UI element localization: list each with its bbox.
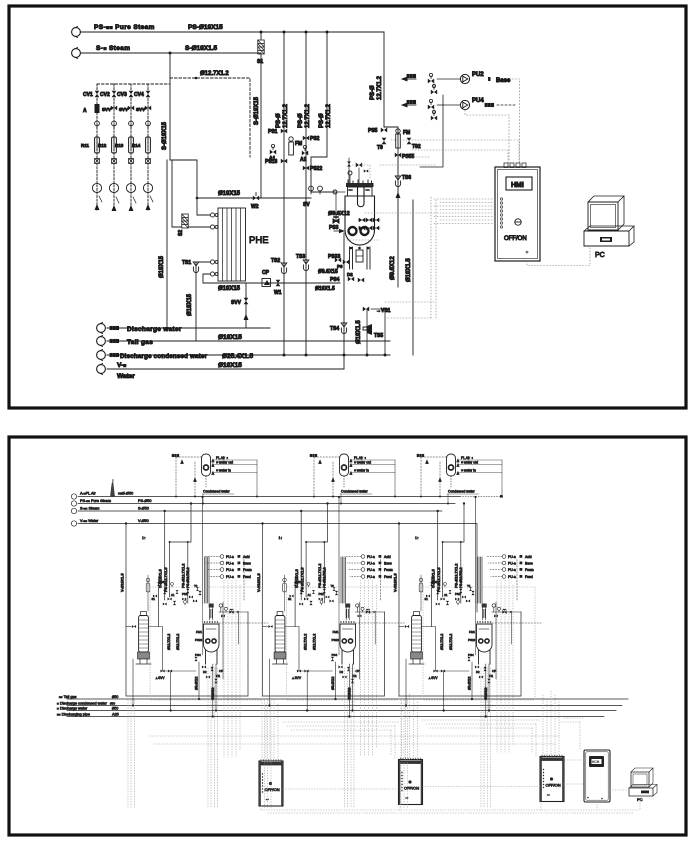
svg-text:Acid: Acid xyxy=(243,555,250,559)
svg-text:S-Ø19X15: S-Ø19X15 xyxy=(162,121,168,150)
controller top bar xyxy=(260,762,282,765)
svg-text:FM: FM xyxy=(295,141,302,147)
PHE nozzle 4 xyxy=(210,272,218,276)
wire condensed header xyxy=(67,705,622,707)
label condensed water xyxy=(202,490,234,495)
valve W2 xyxy=(251,193,259,210)
svg-text:SVV: SVV xyxy=(136,107,145,112)
condenser capsule xyxy=(202,454,211,476)
wire discharge water header xyxy=(67,710,616,712)
steam trap TS1 xyxy=(182,260,199,273)
signal column controller1 xyxy=(262,696,278,761)
svg-text:TS3: TS3 xyxy=(296,254,305,260)
svg-text:PS4: PS4 xyxy=(330,277,340,283)
mid vertical wire xyxy=(158,577,160,627)
PU acid row xyxy=(220,555,250,559)
water riser wire xyxy=(126,524,248,697)
signal bus risers xyxy=(261,795,640,810)
signal frame between c1 c2 xyxy=(283,722,399,730)
cooling water arrow into vessel xyxy=(334,229,345,233)
PU base row xyxy=(220,561,251,565)
svg-text:P0: P0 xyxy=(337,264,343,269)
svg-text:▲SVV: ▲SVV xyxy=(155,676,165,680)
svg-text:PS-Ø: PS-Ø xyxy=(276,113,282,128)
jacket control valve xyxy=(230,609,234,613)
band valve b2 xyxy=(163,603,167,606)
svg-text:Ø19X1.5: Ø19X1.5 xyxy=(406,258,412,282)
PU feed row xyxy=(220,575,251,579)
svg-text:OFF/ON: OFF/ON xyxy=(504,236,527,242)
fermenter internal marks xyxy=(349,189,369,191)
svg-text:SVV: SVV xyxy=(231,300,242,306)
node ps jumper corners xyxy=(169,541,171,543)
cooling water drop wire xyxy=(343,233,345,369)
condensate return wire xyxy=(202,494,204,505)
strainer S1 xyxy=(260,32,262,39)
wire: S2 to PHE nozzle xyxy=(189,226,210,228)
valve band v8 xyxy=(153,594,157,597)
pump PU2 xyxy=(437,72,484,84)
svg-text:Ø12.7X1.2: Ø12.7X1.2 xyxy=(176,634,180,650)
wire: Ø19X15 process line to vessel xyxy=(197,197,311,199)
wire water header xyxy=(78,524,477,613)
vessel legs xyxy=(350,247,371,269)
outlet circles row xyxy=(92,183,152,192)
svg-text:PS18: PS18 xyxy=(265,159,277,165)
svg-text:PS-■■ Pure Steam: PS-■■ Pure Steam xyxy=(94,24,155,31)
svg-text:Foam: Foam xyxy=(243,568,252,572)
svg-text:Water: Water xyxy=(117,373,135,380)
svg-text:PS-Ø12.7X1.5: PS-Ø12.7X1.5 xyxy=(164,568,168,592)
module 3 assembly xyxy=(394,496,542,718)
svg-text:T0: T0 xyxy=(194,584,198,588)
signal column under vessel m2 xyxy=(345,668,355,808)
condenser label water out xyxy=(212,461,257,467)
svg-text:Ø19X15: Ø19X15 xyxy=(218,191,241,197)
svg-text:Base: Base xyxy=(243,562,251,566)
vessel legs xyxy=(206,650,218,664)
PC monitor xyxy=(588,196,624,230)
HMI cabinet bottom xyxy=(584,750,610,802)
signal bottom bus xyxy=(261,810,640,813)
PHE nozzle 3 xyxy=(210,260,218,264)
condenser left dashed drop xyxy=(175,457,196,498)
condenser 2 assembly xyxy=(310,454,396,505)
band valve b6 xyxy=(171,582,174,587)
steam trap TS5 xyxy=(363,309,383,355)
svg-text:A2: A2 xyxy=(300,157,307,163)
PS drop 2 wire xyxy=(305,32,307,355)
svg-text:SV: SV xyxy=(303,202,310,208)
condenser label water in xyxy=(212,469,257,475)
vessel agitator motor xyxy=(209,604,214,608)
jacket gauge xyxy=(224,607,227,612)
svg-text:S1: S1 xyxy=(257,59,263,65)
wire: pure steam main header xyxy=(81,31,384,33)
drop SVV to discharge water xyxy=(170,671,172,712)
pure steam inlet port xyxy=(71,499,151,506)
svg-text:FM: FM xyxy=(403,130,410,136)
svg-text:PS33: PS33 xyxy=(328,254,340,260)
svg-text:D2: D2 xyxy=(347,272,353,277)
svg-text:W2: W2 xyxy=(251,204,259,210)
controller 2 assembly xyxy=(399,758,423,805)
vessel right drop xyxy=(238,611,240,644)
discharge water port xyxy=(97,323,182,334)
dosing bundle wires xyxy=(205,557,210,603)
valve PS2 xyxy=(303,136,320,142)
fermenter internal dip tube xyxy=(358,187,365,207)
air riser to sparger xyxy=(201,496,203,603)
module 2 assembly xyxy=(257,496,405,718)
CV branch 4 wire xyxy=(147,84,149,210)
vessel body xyxy=(204,624,220,652)
steam inlet port xyxy=(71,507,149,514)
check valve CP xyxy=(262,270,271,287)
svg-text:Discharge water: Discharge water xyxy=(127,326,182,333)
flow meter FM1 xyxy=(289,137,302,155)
valve set PU2 suction xyxy=(428,73,437,94)
svg-text:PS1: PS1 xyxy=(159,580,165,584)
svg-text:CV4: CV4 xyxy=(134,92,144,98)
svg-text:S1: S1 xyxy=(152,597,156,601)
wire: manifold inner vertical to S2 xyxy=(172,160,181,227)
condensate dashed wire xyxy=(243,558,245,600)
svg-text:PS5: PS5 xyxy=(368,128,378,134)
svg-text:S2: S2 xyxy=(178,230,184,236)
wire: manifold top horizontal xyxy=(170,159,197,161)
signal column under vessel m3 xyxy=(481,668,491,808)
svg-text:PC: PC xyxy=(595,252,605,259)
svg-text:#50: #50 xyxy=(112,695,118,699)
wire discharge condensed water xyxy=(107,354,390,356)
svg-text:CV2: CV2 xyxy=(100,92,110,98)
wire pump suction manifold xyxy=(420,95,443,167)
dosing valves cluster xyxy=(358,218,380,231)
label tail gas xyxy=(59,695,118,699)
water port xyxy=(97,362,136,380)
svg-text:■ water in: ■ water in xyxy=(216,469,231,473)
svg-text:■■ Tail gas: ■■ Tail gas xyxy=(59,695,77,699)
svg-text:TS2: TS2 xyxy=(271,258,280,264)
lower valve 2 xyxy=(202,665,206,668)
svg-text:R11: R11 xyxy=(81,143,90,148)
wire steam header xyxy=(78,510,442,512)
svg-text:Ø19X15: Ø19X15 xyxy=(187,293,193,316)
wire: mid vertical to PHE top nozzle xyxy=(197,160,210,215)
square fittings row xyxy=(95,159,151,164)
svg-text:PS22: PS22 xyxy=(310,166,322,172)
steam riser wire xyxy=(164,511,166,600)
PHE nozzle 2 xyxy=(210,225,218,229)
flow meter FM2 xyxy=(396,129,411,148)
controller body xyxy=(259,761,283,806)
column outlet wire xyxy=(148,627,162,672)
svg-text:PS23: PS23 xyxy=(195,638,203,642)
outlet arrows row xyxy=(95,196,153,211)
HMI power switch xyxy=(504,219,528,253)
condenser 3 assembly xyxy=(417,454,503,505)
svg-text:S-Ø50: S-Ø50 xyxy=(138,507,149,511)
svg-text:V-Ø50: V-Ø50 xyxy=(138,519,149,523)
valve PS18 xyxy=(265,159,287,165)
discharge condensed water port xyxy=(97,350,254,361)
svg-text:Ø9.6X12: Ø9.6X12 xyxy=(195,677,199,690)
signal column left m1 xyxy=(128,700,135,808)
label Base xyxy=(488,77,511,84)
svg-text:FM1: FM1 xyxy=(196,630,202,634)
wire: dashed Ø12.7X1.2 line xyxy=(170,78,250,157)
valve T02 xyxy=(407,138,421,150)
vessel right standpipe xyxy=(221,602,225,679)
vessel sparger line xyxy=(202,603,204,655)
condenser inlet dashed xyxy=(172,454,202,463)
jacket condensate dashed xyxy=(219,622,268,624)
control valve CV4 xyxy=(134,91,150,98)
strainer S2 xyxy=(182,214,188,228)
signal cross rows xyxy=(150,736,560,744)
PC workstation bottom xyxy=(629,768,657,802)
wire: PHE nozzle3 to TS1 drop xyxy=(196,262,210,341)
junction dots bottom headers m1 xyxy=(268,698,490,718)
jacket wire xyxy=(219,611,248,613)
svg-text:Tail gas: Tail gas xyxy=(127,339,153,346)
svg-text:12.7X1.2: 12.7X1.2 xyxy=(305,103,311,128)
svg-text:Ø19X1.5: Ø19X1.5 xyxy=(356,320,362,344)
svg-text:Ø19X15: Ø19X15 xyxy=(159,255,165,278)
label PS-Ø 12.7X1.2 vertical 3 xyxy=(319,103,332,128)
PU dashed connectors xyxy=(205,557,221,577)
svg-text:PU-a: PU-a xyxy=(226,575,234,579)
wire: steam drop to manifold xyxy=(169,53,171,160)
signal wires HMI to field xyxy=(344,140,590,318)
label PS-Ø 12.7X1.2 vertical 2 xyxy=(298,103,311,128)
valve band v6 xyxy=(198,591,201,595)
svg-text:PU-a: PU-a xyxy=(226,568,234,572)
signal column PU drop m2 xyxy=(361,580,377,755)
svg-text:#50: #50 xyxy=(110,701,115,705)
wire tail gas header xyxy=(67,698,628,700)
svg-text:PS3: PS3 xyxy=(329,225,339,231)
control valve PS3 xyxy=(329,192,339,231)
dots after PU4 xyxy=(485,103,515,106)
valves P0 cluster xyxy=(335,258,349,269)
svg-text:S-■ Steam: S-■ Steam xyxy=(96,45,130,52)
svg-text:T02: T02 xyxy=(412,144,421,150)
svg-text:A: A xyxy=(83,108,87,114)
signal column left m3 xyxy=(401,700,408,808)
wire: PHE bottom outlet line xyxy=(203,274,340,283)
svg-text:TS1: TS1 xyxy=(182,260,191,266)
svg-text:Feed: Feed xyxy=(243,575,251,579)
svg-text:R14: R14 xyxy=(132,143,141,148)
air filter tower xyxy=(111,480,115,497)
vessel flange bolts xyxy=(204,621,219,623)
condenser drum xyxy=(204,465,209,470)
node dot Ø12.7 xyxy=(195,77,198,80)
valve T0 xyxy=(377,138,386,151)
signal column left m2 xyxy=(265,700,272,808)
wire air header xyxy=(78,495,503,498)
plate heat exchanger PHE xyxy=(218,208,246,281)
signal wire PU4 to controller xyxy=(465,110,509,163)
svg-text:TS5: TS5 xyxy=(374,333,383,339)
svg-text:12.7X1.2: 12.7X1.2 xyxy=(377,75,383,100)
svg-text:D2: D2 xyxy=(203,670,207,674)
label PS-Ø 12.7X1.2 vertical 1 xyxy=(276,103,289,128)
solenoid valve SVV row xyxy=(102,106,151,112)
svg-text:PS2: PS2 xyxy=(310,136,320,142)
fermenter body xyxy=(345,196,375,245)
svg-text:PL Air ♀: PL Air ♀ xyxy=(216,456,228,460)
svg-text:CP: CP xyxy=(219,669,223,673)
valve set PU4 suction xyxy=(428,99,437,120)
PS drop 4 wire xyxy=(383,32,385,127)
signal column PU drop m3 xyxy=(497,580,513,752)
band valve b4 xyxy=(189,596,193,599)
air filter column base xyxy=(136,652,151,664)
steam trap TS2 xyxy=(271,258,287,274)
svg-text:Ø12.7X1.2: Ø12.7X1.2 xyxy=(200,71,229,77)
node water riser xyxy=(125,522,127,524)
valve PS1 xyxy=(268,129,287,135)
svg-text:HCM: HCM xyxy=(592,760,600,764)
label discharge water xyxy=(57,706,118,710)
wire discharging pipe header xyxy=(67,716,604,718)
vessel neck xyxy=(209,608,213,621)
wire tail gas xyxy=(107,340,390,342)
wire: dashed CV branch header xyxy=(97,83,170,85)
label PS-Ø 12.7X1.2 vertical 4 xyxy=(370,75,383,100)
junction dots condensed line xyxy=(283,354,387,357)
signal column under vessel m1 xyxy=(208,668,218,808)
wire: steam main header xyxy=(81,52,261,54)
rotameter R14 xyxy=(132,137,150,153)
svg-text:R12: R12 xyxy=(98,143,107,148)
CV branch 2 wire xyxy=(113,84,115,210)
vessel side nozzle xyxy=(333,190,345,194)
svg-text:12.7X1.2: 12.7X1.2 xyxy=(283,103,289,128)
svg-text:Ø19X1.5: Ø19X1.5 xyxy=(315,286,335,292)
svg-text:Condensed water: Condensed water xyxy=(203,490,230,494)
node: steam inlet port xyxy=(72,48,81,59)
svg-text:csØ-Ø50: csØ-Ø50 xyxy=(118,492,133,496)
node PHE line junction xyxy=(196,197,199,200)
valve band v5 xyxy=(186,589,189,593)
safety valve gauges SV xyxy=(303,186,322,208)
svg-text:Ø9.6X12: Ø9.6X12 xyxy=(390,256,396,280)
signal column controller2 xyxy=(402,694,418,760)
HMI screen xyxy=(506,177,532,190)
controller terminal dots xyxy=(262,773,263,792)
signal column PU drop m1 xyxy=(224,580,240,757)
fermenter flange bolts xyxy=(348,180,372,183)
heating coil left xyxy=(349,227,357,235)
condenser right wire xyxy=(256,460,258,498)
wire: long vertical to discharge water xyxy=(166,160,168,328)
hand valve row xyxy=(95,121,151,129)
wire VS1 to drop xyxy=(371,309,385,355)
node ps riser xyxy=(190,502,192,504)
HMI terminal circles xyxy=(500,198,502,228)
svg-text:PU4: PU4 xyxy=(472,98,484,104)
svg-text:CV1: CV1 xyxy=(83,92,93,98)
svg-text:#50: #50 xyxy=(112,706,118,710)
control valve CV1 xyxy=(83,91,99,98)
svg-text:■■ Discharging pipe: ■■ Discharging pipe xyxy=(57,712,90,716)
wire water xyxy=(107,368,344,370)
svg-text:V-■■ Water: V-■■ Water xyxy=(80,519,99,523)
svg-text:S-■■ Steam: S-■■ Steam xyxy=(80,507,99,511)
svg-text:Discharge condensed water: Discharge condensed water xyxy=(120,353,208,360)
signal hmi links xyxy=(564,722,584,760)
signal verticals frame2 xyxy=(532,724,536,757)
svg-text:HMI: HMI xyxy=(511,182,524,189)
air filter column cap xyxy=(141,612,147,616)
heating coil right xyxy=(361,227,369,235)
drop to tail gas xyxy=(198,662,200,700)
svg-text:A25: A25 xyxy=(112,712,119,716)
signal module frame m1 xyxy=(150,587,262,700)
junction dots on PS header xyxy=(283,31,286,34)
svg-text:CV3: CV3 xyxy=(117,92,127,98)
water inlet port xyxy=(71,519,148,526)
svg-text:PS-■■ Pure Steam: PS-■■ Pure Steam xyxy=(80,499,111,503)
valve band v2 xyxy=(168,597,172,600)
svg-text:A-■PL Air: A-■PL Air xyxy=(80,492,96,496)
valve PS55 xyxy=(395,153,415,160)
svg-text:SVV: SVV xyxy=(102,107,111,112)
steam trap TS4 xyxy=(330,323,347,334)
lower valve 3 xyxy=(210,667,213,671)
svg-text:V-■: V-■ xyxy=(117,362,126,369)
svg-text:PU-a: PU-a xyxy=(226,555,234,559)
valve W1 xyxy=(274,280,282,296)
pump feed arrow PU2 xyxy=(402,74,416,80)
signal frame between c2 c3 xyxy=(422,720,540,728)
rotameter R13 xyxy=(115,137,133,153)
controller 3 assembly xyxy=(540,755,564,802)
PHE nozzle 1 xyxy=(210,213,218,217)
svg-text:PS1: PS1 xyxy=(268,129,278,135)
PU cluster 2 assembly xyxy=(346,555,393,579)
border frame top panel xyxy=(9,6,686,408)
valve band v7 xyxy=(193,599,197,602)
flow meter column xyxy=(146,575,150,611)
vessel internals xyxy=(206,629,216,643)
rotameter R12 xyxy=(98,137,116,153)
svg-text:R13: R13 xyxy=(115,143,124,148)
svg-text:S-Ø19X15: S-Ø19X15 xyxy=(254,96,260,125)
wire: steam drop 2 xyxy=(260,53,262,198)
svg-text:■ Discharge condensed water: ■ Discharge condensed water xyxy=(57,701,108,705)
drop column to condensed xyxy=(132,659,134,707)
svg-text:PS-Ø: PS-Ø xyxy=(370,85,376,100)
svg-text:TS4: TS4 xyxy=(330,326,339,332)
PU cluster 3 assembly xyxy=(487,555,534,579)
pump PU4 xyxy=(437,98,484,110)
svg-text:TS6: TS6 xyxy=(402,175,411,181)
signal module frame m3 xyxy=(423,587,535,700)
fermenter top instrument valves xyxy=(347,158,368,183)
valve PS5 xyxy=(368,128,387,134)
valve PS22 xyxy=(303,166,323,172)
svg-text:PS-Ø12.7X1.2: PS-Ø12.7X1.2 xyxy=(182,564,186,588)
wire: vertical Ø19X1.5 drop xyxy=(412,200,414,355)
lower valve 1 xyxy=(194,657,197,661)
condenser label air xyxy=(212,456,257,462)
fermenter upper shell xyxy=(348,187,373,196)
